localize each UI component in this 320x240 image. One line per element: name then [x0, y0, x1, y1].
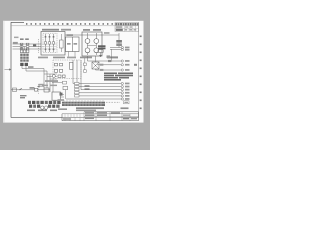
contact K2.2: [60, 63, 63, 66]
filter label above: [67, 34, 74, 36]
junction label boxes on drops: [75, 82, 80, 97]
switch symbol on line: [19, 88, 22, 90]
terminal wire 31: [110, 48, 121, 50]
bus drop wire c: [80, 60, 82, 90]
control box footer label: [45, 80, 58, 82]
overload relay F3 hatched block: [20, 54, 29, 62]
stub wires into control box: [44, 74, 57, 79]
main switch enclosure box: [41, 32, 65, 56]
relay box wires: [61, 95, 65, 98]
bottom control line: [11, 89, 50, 91]
paper left edge shade: [3, 21, 6, 123]
sense contact a: [84, 63, 87, 66]
coil K3: [60, 69, 63, 72]
drop wire x47: [46, 71, 48, 88]
terminal strip X2: [62, 102, 105, 106]
note text block mid right: [98, 45, 106, 49]
L1 L2 L3 supply labels: [13, 42, 18, 44]
fuse group labels: [20, 38, 24, 40]
transformer output wires: [95, 69, 97, 70]
filter cell text 2: [74, 43, 78, 45]
wire L2: [13, 46, 42, 48]
coil K2: [55, 69, 58, 72]
relay box K4: [52, 92, 61, 100]
bottom row labels: [27, 110, 57, 112]
drawing frame top border segment: [11, 21, 24, 23]
line start box: [13, 88, 17, 91]
upper branch contact: [63, 81, 67, 84]
filter stubs down: [69, 52, 76, 57]
terminal wire 34: [96, 69, 122, 71]
signal wire row 4: [75, 92, 121, 94]
terminal sym 31: [121, 49, 129, 51]
dc wire pair left: [22, 69, 47, 72]
thyristor V1.1: [85, 39, 90, 44]
relay connector: [60, 93, 63, 96]
frame bottom border: [11, 116, 62, 118]
scanner background: [0, 0, 150, 150]
signal wire row 1: [73, 83, 121, 85]
sense branch wire: [84, 58, 86, 73]
terminal wire 30: [110, 47, 121, 49]
page ref text right bottom: [58, 108, 67, 110]
upper branch wire: [52, 82, 63, 84]
column number row: [26, 23, 113, 25]
drawing frame right border: [138, 22, 140, 117]
terminal sym 30: [121, 46, 129, 48]
signal terminal 5: [121, 95, 129, 97]
thyristor V1.3: [85, 48, 90, 53]
left margin reference arrow: [5, 69, 12, 71]
drop wire x50: [49, 74, 51, 92]
filter box Z1: [66, 37, 80, 52]
terminal wire 32: [88, 56, 122, 61]
phase stubs into filter: [64, 44, 67, 49]
transformer T1 crossed box: [92, 62, 99, 69]
terminal block X1 pole b: [25, 63, 28, 66]
title block: [62, 112, 139, 121]
contact row lower c: [63, 75, 66, 78]
rectifier labels above: [83, 29, 90, 31]
small box mid right: [107, 55, 111, 58]
dc wire labels: [28, 66, 34, 68]
dashed continuation wire: [106, 101, 120, 103]
terminal sym 33: [121, 64, 129, 66]
wire from X1 down: [22, 66, 26, 71]
filter cell text 1: [67, 43, 71, 45]
revision table band: [62, 114, 139, 121]
signal wire row 3: [81, 89, 121, 91]
title table top right: [115, 23, 139, 32]
label above line: [30, 87, 35, 89]
bus drop wire a: [72, 60, 74, 84]
switch terminals top: [45, 36, 55, 50]
signal terminal 6: [121, 98, 129, 100]
tap wires to contactor K1: [22, 44, 27, 50]
contact row lower b: [58, 75, 61, 78]
pull-out arrow: [38, 86, 45, 88]
signal wire row 6: [66, 98, 121, 100]
row letter marks right margin: [140, 36, 142, 110]
left small text: [20, 95, 27, 98]
dashed separator vertical: [38, 84, 40, 95]
fuse F2 three poles: [26, 43, 29, 50]
control dashed box A1: [53, 60, 81, 79]
terminal strip labels above: [64, 100, 103, 102]
main switch inner dashed box: [43, 33, 57, 53]
wire L1: [13, 43, 42, 45]
auxiliary contact S1: [60, 40, 64, 48]
wire rect to transformer: [95, 56, 97, 62]
thyristor V1.2: [94, 39, 99, 44]
signal wire row 2: [77, 86, 121, 88]
switch contacts: [46, 42, 55, 45]
bus drop wire b: [76, 60, 78, 87]
switch pole 1: [45, 34, 47, 52]
branch box X3: [63, 86, 68, 89]
enclosure dashed boundary: [38, 39, 40, 53]
terminal sym 34: [121, 69, 129, 71]
paper sheet: [3, 21, 144, 123]
contactor K1 contact row: [20, 50, 29, 53]
switch pole 3: [53, 34, 55, 52]
terminal sym 32: [121, 60, 129, 62]
signal terminal 4: [121, 92, 129, 94]
contact K2.1: [55, 63, 58, 66]
thyristor V1.4: [94, 48, 99, 53]
frame inner top line: [11, 25, 139, 27]
arrow label: [39, 84, 44, 86]
rectifier branch wire 2: [95, 33, 97, 55]
signal terminal 2: [121, 86, 129, 88]
wire rectifier to right: [102, 33, 119, 48]
drop wire x44: [43, 69, 45, 89]
coil K5: [70, 62, 73, 69]
note block right (text): [104, 73, 133, 81]
main switch box Q1 label text: [42, 29, 59, 31]
rectifier crossbar: [88, 45, 97, 47]
strip left label: [58, 99, 65, 101]
rectifier box V1: [82, 32, 102, 56]
signal terminal 3: [121, 89, 129, 91]
brake resistor label boxes on drop: [116, 40, 122, 43]
signal wire row 5: [79, 95, 121, 97]
fuse F1 three poles: [20, 43, 23, 50]
rectifier branch wire 1: [87, 33, 89, 55]
bottom component row cluster: [28, 101, 61, 108]
top link wire between boxes: [65, 34, 102, 36]
contact under note: [98, 50, 103, 53]
switch pole 2: [49, 34, 51, 52]
terminal block X1 pole a: [20, 63, 23, 66]
signal terminal 1: [121, 82, 129, 84]
drop wire x53: [52, 79, 54, 92]
line reactor W1 on L1: [33, 44, 36, 46]
wire L3: [13, 48, 42, 50]
indicator circles bottom: [41, 106, 44, 109]
drawing frame left border: [10, 22, 12, 117]
series device box: [44, 88, 49, 92]
arrow down from contact: [100, 53, 102, 57]
control box top label: [38, 57, 48, 59]
filter divider: [71, 37, 73, 52]
junction labels rows: [85, 85, 90, 86]
terminal wire 33: [97, 64, 121, 66]
contact row lower a: [52, 75, 55, 78]
sense contact b: [84, 70, 87, 73]
